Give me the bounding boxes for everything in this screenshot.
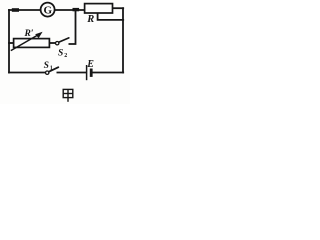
svg-text:G: G: [44, 5, 53, 17]
svg-text:1: 1: [50, 65, 53, 71]
svg-text:2: 2: [64, 53, 67, 59]
caption 甲 (drawn glyph): [63, 89, 73, 101]
resistor R body: [85, 4, 113, 13]
switch S1 lever: [49, 67, 59, 72]
svg-text:S: S: [58, 49, 63, 59]
svg-text:R′: R′: [24, 29, 34, 39]
rheostat R' body: [14, 39, 50, 48]
wire bottom middle (S1 to battery): [57, 72, 85, 74]
wire bottom right (battery to corner): [93, 72, 123, 74]
wire left vertical side: [8, 10, 10, 73]
svg-text:E: E: [86, 59, 94, 70]
wire resistor R right lead: [113, 7, 124, 9]
switch S2 lever: [59, 38, 69, 42]
svg-text:S: S: [44, 61, 49, 71]
wire rheostat right lead: [49, 42, 55, 44]
wire tap from R bottom down and right: [98, 13, 124, 20]
battery E long plate: [86, 65, 88, 80]
wire top-right of galvanometer to resistor R: [55, 9, 85, 11]
wire junction blob on top wire: [14, 8, 18, 12]
switch S1 pivot terminal: [46, 71, 49, 74]
wire right vertical side: [122, 8, 124, 72]
galvanometer G1 circle: [41, 3, 55, 17]
battery E short plate: [90, 69, 93, 77]
rheostat R' arrow: [11, 32, 43, 51]
wire rheostat left lead: [9, 42, 14, 44]
wire top-left horizontal (corner to galvanometer): [9, 9, 41, 11]
switch S2 pivot terminal: [56, 42, 59, 45]
svg-text:R: R: [86, 14, 94, 25]
junction dot riser/top wire: [74, 8, 77, 11]
wire S2 riser to top wire: [69, 11, 75, 44]
wire bottom left (to switch S1): [9, 72, 45, 74]
